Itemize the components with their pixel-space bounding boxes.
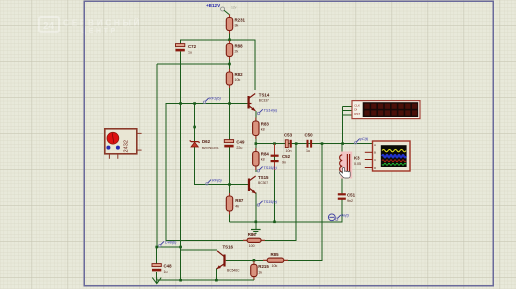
svg-text:R83: R83 xyxy=(261,122,270,127)
inductor K3 with highlight xyxy=(340,152,361,179)
ground C48 arrow xyxy=(152,278,161,284)
svg-text:9n2: 9n2 xyxy=(347,199,353,203)
svg-text:3k: 3k xyxy=(235,24,239,28)
svg-text:9n: 9n xyxy=(282,161,286,165)
resistor R87 xyxy=(226,193,244,215)
svg-text:C50: C50 xyxy=(305,133,314,138)
svg-text:TS15: TS15 xyxy=(258,175,269,180)
capacitor C72 xyxy=(176,44,197,55)
node x180 bottom rail xyxy=(179,279,182,282)
svg-text:9n(t): 9n(t) xyxy=(341,214,350,218)
svg-text:R231: R231 xyxy=(235,18,246,23)
probe TS14 base xyxy=(203,97,221,104)
node base wire x229 xyxy=(228,102,231,105)
svg-text:2k: 2k xyxy=(235,50,239,54)
node x322 y143 xyxy=(321,142,324,145)
svg-text:C48(b): C48(b) xyxy=(165,241,177,245)
wire display pins to rail xyxy=(343,106,353,143)
node x180 y247 xyxy=(179,246,182,249)
svg-text:1u: 1u xyxy=(188,51,192,55)
node C52 bottom y221 xyxy=(273,221,276,224)
meter component with red lamp xyxy=(105,129,142,159)
svg-text:R88: R88 xyxy=(235,44,244,49)
svg-text:4k: 4k xyxy=(235,205,239,209)
transistor TS15 xyxy=(248,176,256,193)
svg-text:C53: C53 xyxy=(284,133,293,138)
resistor R86 horizontal xyxy=(243,232,265,248)
node left rail y247 xyxy=(155,246,158,249)
svg-text:12v: 12v xyxy=(231,6,237,10)
svg-text:k8: k8 xyxy=(261,128,265,132)
svg-text:TS15(k): TS15(k) xyxy=(263,166,277,170)
wire y=221.8 bottom middle xyxy=(230,199,342,222)
svg-text:1k: 1k xyxy=(258,271,262,275)
probe C48 base xyxy=(159,241,178,247)
svg-text:A: A xyxy=(374,143,376,147)
resistor R82 xyxy=(226,69,243,88)
svg-text:0.05: 0.05 xyxy=(354,162,361,166)
wire R215 rail xyxy=(253,260,255,280)
svg-text:BZX79C2V1: BZX79C2V1 xyxy=(202,146,219,150)
svg-text:10n: 10n xyxy=(286,149,292,153)
svg-text:R85: R85 xyxy=(271,252,280,257)
svg-text:C48: C48 xyxy=(164,264,173,269)
node TS15 base wire x229 xyxy=(228,183,231,186)
node D62 rail y127 xyxy=(193,126,196,129)
svg-text:2432: 2432 xyxy=(124,140,130,152)
transistor TS14 xyxy=(249,94,256,111)
resistor R88 xyxy=(226,41,243,60)
svg-text:R84: R84 xyxy=(261,152,270,157)
node D62 rail top xyxy=(193,102,196,105)
svg-text:K3: K3 xyxy=(354,156,360,161)
wire network xyxy=(157,15,373,281)
wire main horizontal y=143.6 to scope A xyxy=(256,143,373,145)
wire y=64 left xyxy=(157,63,230,65)
svg-text:RST: RST xyxy=(354,112,360,116)
probe TS15 base xyxy=(206,179,223,186)
svg-text:22u: 22u xyxy=(236,146,242,150)
svg-text:RF(b): RF(b) xyxy=(212,179,222,183)
svg-text:BC546C: BC546C xyxy=(227,269,240,273)
svg-text:C72: C72 xyxy=(188,44,197,49)
wire C72 top to TS14 collector xyxy=(180,40,255,90)
svg-text:TS15(e): TS15(e) xyxy=(263,200,277,204)
node TS16 emitter y280 xyxy=(215,279,218,282)
node R83/R84 y143 xyxy=(255,142,258,145)
node R215 top xyxy=(253,259,256,262)
svg-text:R87: R87 xyxy=(235,198,244,203)
probe TS15 emitter xyxy=(257,200,278,206)
current probe xyxy=(328,214,349,221)
svg-text:R215: R215 xyxy=(258,264,269,269)
capacitor C52 xyxy=(271,144,291,170)
wire bottom rail y=280 xyxy=(157,279,254,281)
power terminal top xyxy=(206,3,237,15)
svg-text:C51: C51 xyxy=(347,193,356,198)
wire K3 to C51 to bottom xyxy=(341,144,343,222)
wire TS16 collector left xyxy=(181,249,218,251)
svg-text:TS14(e): TS14(e) xyxy=(264,109,278,113)
wire TS16 base to junction xyxy=(226,259,253,261)
svg-text:100: 100 xyxy=(249,244,255,248)
node base wire x180 xyxy=(179,102,182,105)
svg-text:RF1(b): RF1(b) xyxy=(209,97,222,101)
svg-text:C49: C49 xyxy=(236,140,245,145)
svg-text:1u: 1u xyxy=(306,149,310,153)
node K3/display y143 xyxy=(341,142,344,145)
svg-text:TS16: TS16 xyxy=(223,244,234,249)
svg-text:R86: R86 xyxy=(248,232,257,237)
wire x=322 vertical and R85 wire xyxy=(253,144,322,261)
sheet frame xyxy=(84,1,493,285)
svg-text:BC307: BC307 xyxy=(258,181,268,185)
capacitor C53 xyxy=(284,133,293,153)
wire C49 bottom to R87 to corner xyxy=(229,147,231,222)
svg-text:TS14: TS14 xyxy=(259,93,270,98)
capacitor C51 xyxy=(338,193,356,204)
svg-text:R82: R82 xyxy=(235,72,244,77)
resistor R83 xyxy=(253,118,270,140)
node R88/R82 y64 xyxy=(228,63,231,66)
svg-text:BC337: BC337 xyxy=(259,99,269,103)
svg-text:10k: 10k xyxy=(235,78,241,82)
zener diode D62 xyxy=(190,140,200,146)
wire C48 top lead xyxy=(156,247,158,264)
svg-text:СЕРВИСНЫЙ: СЕРВИСНЫЙ xyxy=(63,17,142,28)
probe TS14 emitter xyxy=(257,109,278,115)
wire C48 bottom to ground xyxy=(156,272,158,280)
wire x=180 long vertical xyxy=(180,52,182,281)
watermark logo and text xyxy=(39,17,142,36)
wire TS14 emitter to R83 xyxy=(255,111,257,121)
capacitor C49 xyxy=(224,140,245,151)
capacitor C50 xyxy=(305,133,314,153)
resistor R84 xyxy=(253,148,270,170)
svg-text:D62: D62 xyxy=(202,139,211,144)
node C53 right y143 xyxy=(295,142,298,145)
wire C52 rail xyxy=(274,144,276,222)
wire TS16 emitter down xyxy=(215,269,217,281)
ground TS15 emitter xyxy=(251,230,261,234)
resistor R85 horizontal xyxy=(263,252,288,268)
svg-text:B: B xyxy=(374,151,376,155)
transistor TS16 mirrored xyxy=(217,251,226,269)
svg-text:C52: C52 xyxy=(282,154,291,159)
bargraph display xyxy=(352,101,420,119)
wire R83/R84 rail xyxy=(255,136,257,172)
wire main center rail through R231 R88 R82 C49 R87 xyxy=(229,15,231,141)
node R231/R88 xyxy=(228,39,231,42)
svg-text:1u: 1u xyxy=(164,270,168,274)
resistor R215 xyxy=(251,261,270,280)
oscilloscope xyxy=(365,141,410,171)
wire D62 rail and TS15 base wire xyxy=(195,104,249,185)
probe TS15 collector xyxy=(257,166,277,172)
svg-text:+B12V: +B12V xyxy=(206,3,221,8)
svg-text:k8: k8 xyxy=(261,158,265,162)
wire TS15 emitter to ground xyxy=(255,193,257,230)
node TS15 emitter y221 xyxy=(255,221,258,224)
svg-text:10k: 10k xyxy=(272,264,278,268)
mouse hand cursor xyxy=(339,167,350,178)
node C52 top xyxy=(273,142,276,145)
wire x=166 rail and TS14 base wire xyxy=(166,104,296,241)
capacitor C48 xyxy=(152,264,172,275)
svg-text:ЦЕНТР: ЦЕНТР xyxy=(81,28,118,35)
wire left rail x=157 xyxy=(157,64,181,247)
svg-text:24: 24 xyxy=(43,21,55,32)
probe scope wire xyxy=(354,137,369,144)
resistor R231 xyxy=(226,15,245,34)
svg-text:yC(t): yC(t) xyxy=(359,137,369,141)
